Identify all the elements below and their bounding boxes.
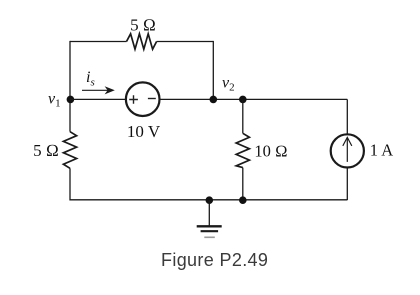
node v1 dot (67, 96, 75, 104)
wire left vertical lower (69, 168, 71, 200)
plus sign (129, 95, 138, 104)
svg-text:is: is (86, 69, 95, 89)
ground symbol bars (197, 225, 222, 227)
wire right vertical upper (346, 99, 348, 134)
ground stub wire (208, 200, 210, 226)
svg-text:10 V: 10 V (127, 122, 161, 141)
node v2 dot (239, 96, 247, 104)
svg-text:1 A: 1 A (370, 141, 393, 160)
svg-text:v2: v2 (222, 75, 235, 94)
wire 10-ohm branch lower (242, 168, 244, 201)
node 10-ohm bottom dot (239, 196, 247, 204)
svg-text:5 Ω: 5 Ω (33, 141, 59, 160)
wire bottom rail (70, 199, 347, 201)
voltage source U1 circle (126, 82, 160, 116)
svg-text:v1: v1 (48, 91, 61, 110)
wire top rail right (157, 41, 214, 43)
current source arrow up (346, 139, 348, 162)
wire right vertical lower (346, 167, 348, 200)
wire left vertical upper (69, 41, 71, 132)
current source I1 circle (331, 134, 364, 167)
svg-text:5 Ω: 5 Ω (130, 15, 156, 34)
node ground junction dot (206, 196, 214, 204)
wire vertical from top rail to node v2 junction (212, 41, 214, 100)
resistor R top 5-ohm zigzag (127, 34, 157, 49)
resistor R left 5-ohm zigzag (63, 132, 76, 169)
wire mid rail from voltage source to right vertical (159, 98, 347, 100)
current arrow i_s (82, 89, 110, 91)
caption Figure P2.49 (161, 250, 268, 271)
wire 10-ohm branch upper (242, 99, 244, 133)
wire mid rail from v1 to voltage source (70, 98, 126, 100)
svg-text:10 Ω: 10 Ω (254, 141, 287, 160)
minus sign (148, 98, 156, 100)
wire top rail left (70, 41, 127, 43)
resistor R2 10-ohm zigzag (236, 133, 249, 167)
node junction top rail dot (210, 96, 218, 104)
